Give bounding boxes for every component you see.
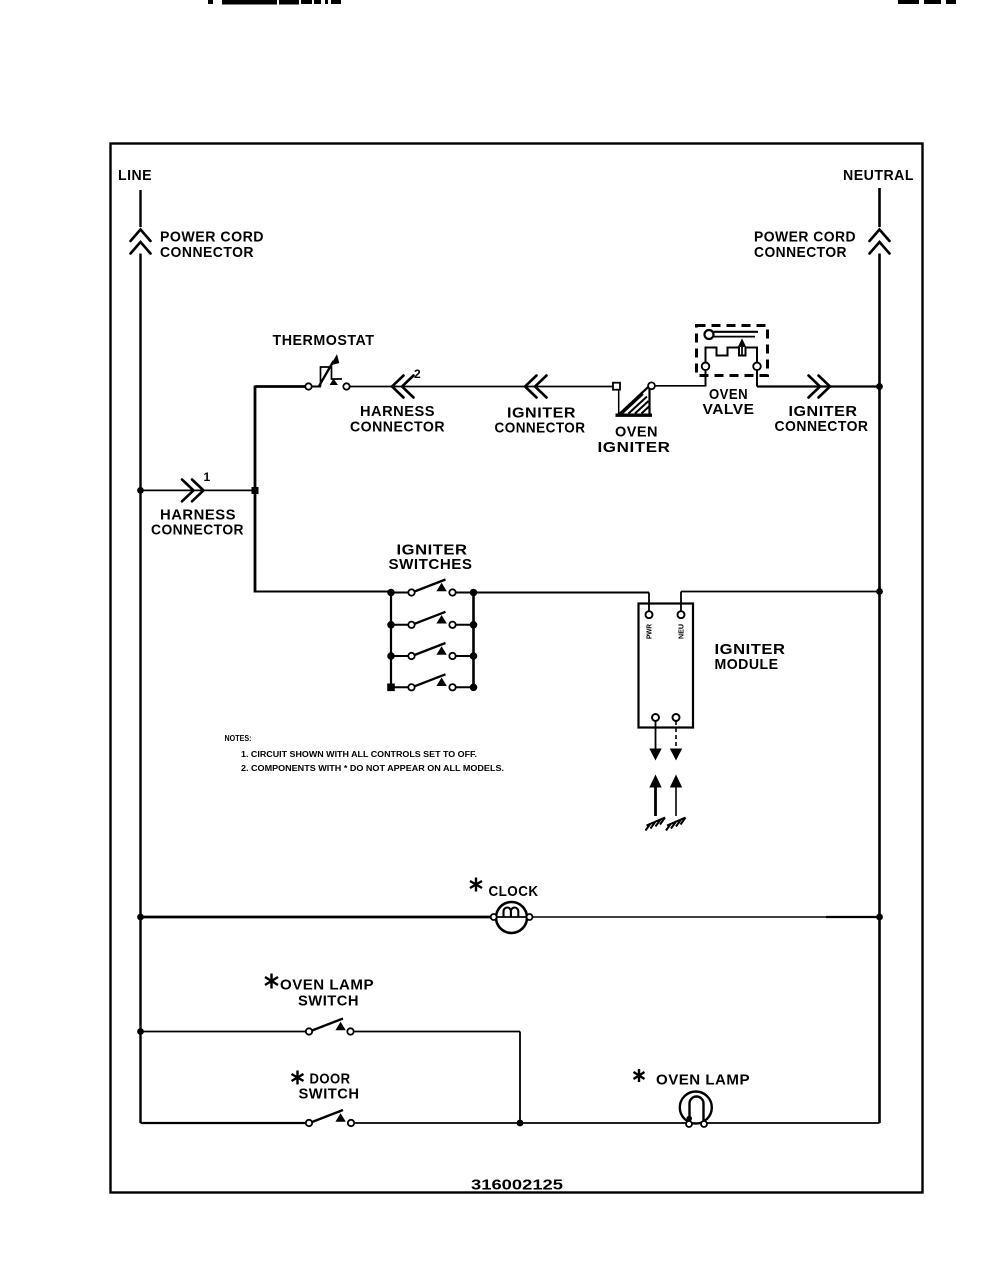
svg-text:POWER CORD: POWER CORD	[160, 229, 264, 246]
igniter module top terminals	[646, 611, 653, 618]
wire thermostat to igniter connector	[350, 386, 615, 388]
wire harness connector 1 line	[141, 489, 256, 491]
clock asterisk	[470, 878, 482, 892]
svg-text:LINE: LINE	[118, 167, 152, 184]
wire door line to oven lamp	[354, 1122, 686, 1124]
svg-text:CONNECTOR: CONNECTOR	[495, 420, 586, 437]
svg-text:CONNECTOR: CONNECTOR	[775, 418, 869, 435]
igniter module box	[639, 604, 694, 728]
wire igniter module NEU to neutral bus	[681, 592, 880, 612]
igniter switch SW4	[388, 674, 477, 690]
junction node line bus / clock line	[137, 914, 144, 921]
door switch SW6	[306, 1110, 354, 1126]
svg-text:2. COMPONENTS WITH * DO NOT AP: 2. COMPONENTS WITH * DO NOT APPEAR ON AL…	[241, 764, 504, 773]
svg-text:SWITCH: SWITCH	[299, 1086, 360, 1103]
wire clock line right	[533, 916, 880, 918]
svg-text:NEU: NEU	[679, 624, 686, 639]
svg-text:CONNECTOR: CONNECTOR	[754, 244, 847, 261]
oven valve dashed box	[697, 326, 768, 376]
wire vertical drop x=255	[254, 386, 257, 593]
oven igniter symbol	[613, 382, 655, 415]
svg-text:MODULE: MODULE	[715, 656, 779, 673]
wire oven valve to neutral bus	[757, 385, 880, 387]
svg-text:CONNECTOR: CONNECTOR	[151, 522, 244, 539]
harness connector 2 chevrons	[392, 376, 414, 398]
junction node main line / neutral	[876, 383, 883, 390]
igniter module bottom terminals	[652, 714, 659, 721]
svg-text:NOTES:: NOTES:	[225, 734, 252, 743]
wire NEUTRAL vertical (right bus)	[878, 188, 881, 227]
cropped header text fragments (top edge)	[208, 0, 956, 5]
wire switches to igniter module PWR	[474, 592, 650, 594]
svg-text:THERMOSTAT: THERMOSTAT	[273, 332, 375, 349]
svg-text:IGNITER: IGNITER	[598, 439, 671, 456]
igniter output lead right (down arrow, dashed)	[675, 721, 677, 749]
wire igniter to oven valve	[655, 385, 706, 387]
svg-text:2: 2	[414, 367, 421, 381]
junction node drop / door line	[517, 1120, 524, 1127]
junction node NEU line / neutral bus	[876, 588, 883, 595]
wire lamp switch line left	[141, 1031, 307, 1033]
spark electrode left burner ground	[646, 818, 666, 831]
junction node neutral bus / clock line	[876, 914, 883, 921]
wire door switch line left	[141, 1122, 307, 1124]
igniter connector (right) chevrons	[809, 376, 831, 398]
wire corner x255 to igniter switches	[255, 591, 391, 593]
spark electrode left (up arrow)	[654, 786, 657, 816]
svg-text:NEUTRAL: NEUTRAL	[843, 167, 914, 184]
svg-text:316002125: 316002125	[471, 1177, 563, 1194]
wire lamp switch line right, drop to door line	[354, 1032, 520, 1124]
igniter output lead left (down arrow)	[655, 721, 657, 749]
svg-text:OVEN LAMP: OVEN LAMP	[280, 977, 374, 994]
igniter switch SW1	[388, 580, 477, 596]
svg-text:PWR: PWR	[647, 624, 654, 639]
border frame	[111, 144, 923, 1193]
svg-text:POWER CORD: POWER CORD	[754, 229, 856, 246]
oven lamp asterisk	[634, 1069, 645, 1082]
svg-text:VALVE: VALVE	[703, 401, 755, 418]
power cord connector (right) chevrons	[870, 230, 890, 254]
oven valve bimetal coil	[702, 330, 761, 370]
junction node line bus / harness line	[137, 487, 144, 494]
svg-text:CONNECTOR: CONNECTOR	[350, 419, 445, 436]
svg-text:HARNESS: HARNESS	[360, 403, 435, 420]
svg-text:1. CIRCUIT SHOWN WITH ALL CONT: 1. CIRCUIT SHOWN WITH ALL CONTROLS SET T…	[241, 750, 477, 759]
wire main oven circuit: corner to thermostat	[255, 385, 305, 388]
svg-text:CONNECTOR: CONNECTOR	[160, 244, 254, 261]
svg-text:CLOCK: CLOCK	[489, 883, 539, 900]
svg-text:OVEN LAMP: OVEN LAMP	[656, 1072, 750, 1089]
igniter switches right bus	[472, 593, 475, 688]
junction node vertical drop / harness line	[252, 487, 259, 494]
oven lamp L1	[680, 1092, 712, 1128]
wire LINE vertical (left bus)	[139, 190, 141, 227]
igniter switches left bus	[390, 593, 392, 688]
svg-text:OVEN: OVEN	[615, 424, 658, 441]
oven lamp switch SW5	[306, 1019, 354, 1035]
svg-text:SWITCHES: SWITCHES	[389, 556, 473, 573]
svg-text:SWITCH: SWITCH	[298, 993, 359, 1010]
oven lamp switch asterisk	[265, 974, 278, 989]
junction node line bus / lamp switch line	[137, 1028, 144, 1035]
igniter switch SW2	[388, 612, 477, 628]
spark electrode right (up arrow)	[675, 786, 677, 816]
igniter connector (mid) chevrons	[525, 376, 547, 398]
wire clock line left	[141, 916, 494, 919]
clock motor M1	[491, 902, 533, 933]
harness connector 1 chevrons	[182, 480, 204, 502]
spark electrode right burner ground	[666, 818, 686, 831]
thermostat TH1	[305, 355, 349, 389]
door switch asterisk	[292, 1071, 304, 1085]
igniter switch SW3	[388, 643, 477, 659]
wire oven valve terminals down to main line	[706, 370, 758, 386]
svg-text:1: 1	[204, 470, 211, 484]
power cord connector (left) chevrons	[131, 230, 151, 254]
wire oven lamp to neutral bus corner	[707, 1122, 880, 1124]
